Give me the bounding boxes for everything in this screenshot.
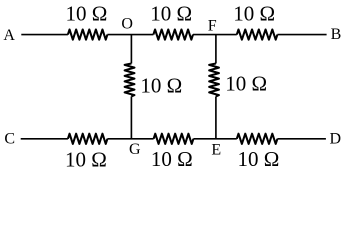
svg-text:C: C: [4, 131, 15, 148]
circuit schematic: resistor ladder network: [0, 0, 348, 173]
svg-text:10 Ω: 10 Ω: [238, 147, 280, 171]
svg-text:10 Ω: 10 Ω: [150, 2, 192, 26]
resistor R1 zigzag (A-O, 10 ohm): [68, 30, 108, 40]
wire R7 down to node G: [130, 97, 132, 139]
resistor R7 zigzag (O-G vertical, 10 ohm): [125, 64, 135, 97]
resistor R2 zigzag (O-F, 10 ohm): [153, 30, 193, 40]
wire R5 to R6 through node E: [193, 138, 236, 140]
svg-text:10 Ω: 10 Ω: [140, 73, 182, 97]
resistor R5 zigzag (G-E, 10 ohm): [154, 134, 194, 144]
svg-text:F: F: [208, 18, 217, 35]
wire C to R4: [21, 138, 68, 140]
svg-text:E: E: [211, 141, 221, 158]
wire R4 to R5 through node G: [107, 138, 153, 140]
svg-text:G: G: [129, 141, 141, 158]
resistor R3 zigzag (F-B, 10 ohm): [237, 30, 278, 40]
wire node O down to R7: [130, 35, 132, 64]
resistor R6 zigzag (E-D, 10 ohm): [237, 134, 278, 144]
svg-text:10 Ω: 10 Ω: [65, 148, 107, 172]
svg-text:10 Ω: 10 Ω: [233, 2, 275, 26]
wire A to R1: [21, 34, 68, 36]
wire R3 to B: [277, 34, 326, 36]
wire R8 down to node E: [215, 97, 217, 139]
wire node F down to R8: [215, 35, 217, 64]
svg-text:D: D: [330, 131, 342, 148]
svg-text:B: B: [331, 26, 342, 43]
svg-text:O: O: [121, 15, 133, 32]
svg-text:A: A: [3, 27, 15, 44]
resistor R4 zigzag (C-G, 10 ohm): [68, 134, 108, 144]
resistor R8 zigzag (F-E vertical, 10 ohm): [209, 64, 219, 97]
wire R6 to D: [277, 138, 326, 140]
svg-text:10 Ω: 10 Ω: [225, 72, 267, 96]
wire R1 to R2 through node O: [107, 34, 153, 36]
wire R2 to R3 through node F: [193, 34, 237, 36]
svg-text:10 Ω: 10 Ω: [66, 2, 108, 26]
svg-text:10 Ω: 10 Ω: [151, 147, 193, 171]
